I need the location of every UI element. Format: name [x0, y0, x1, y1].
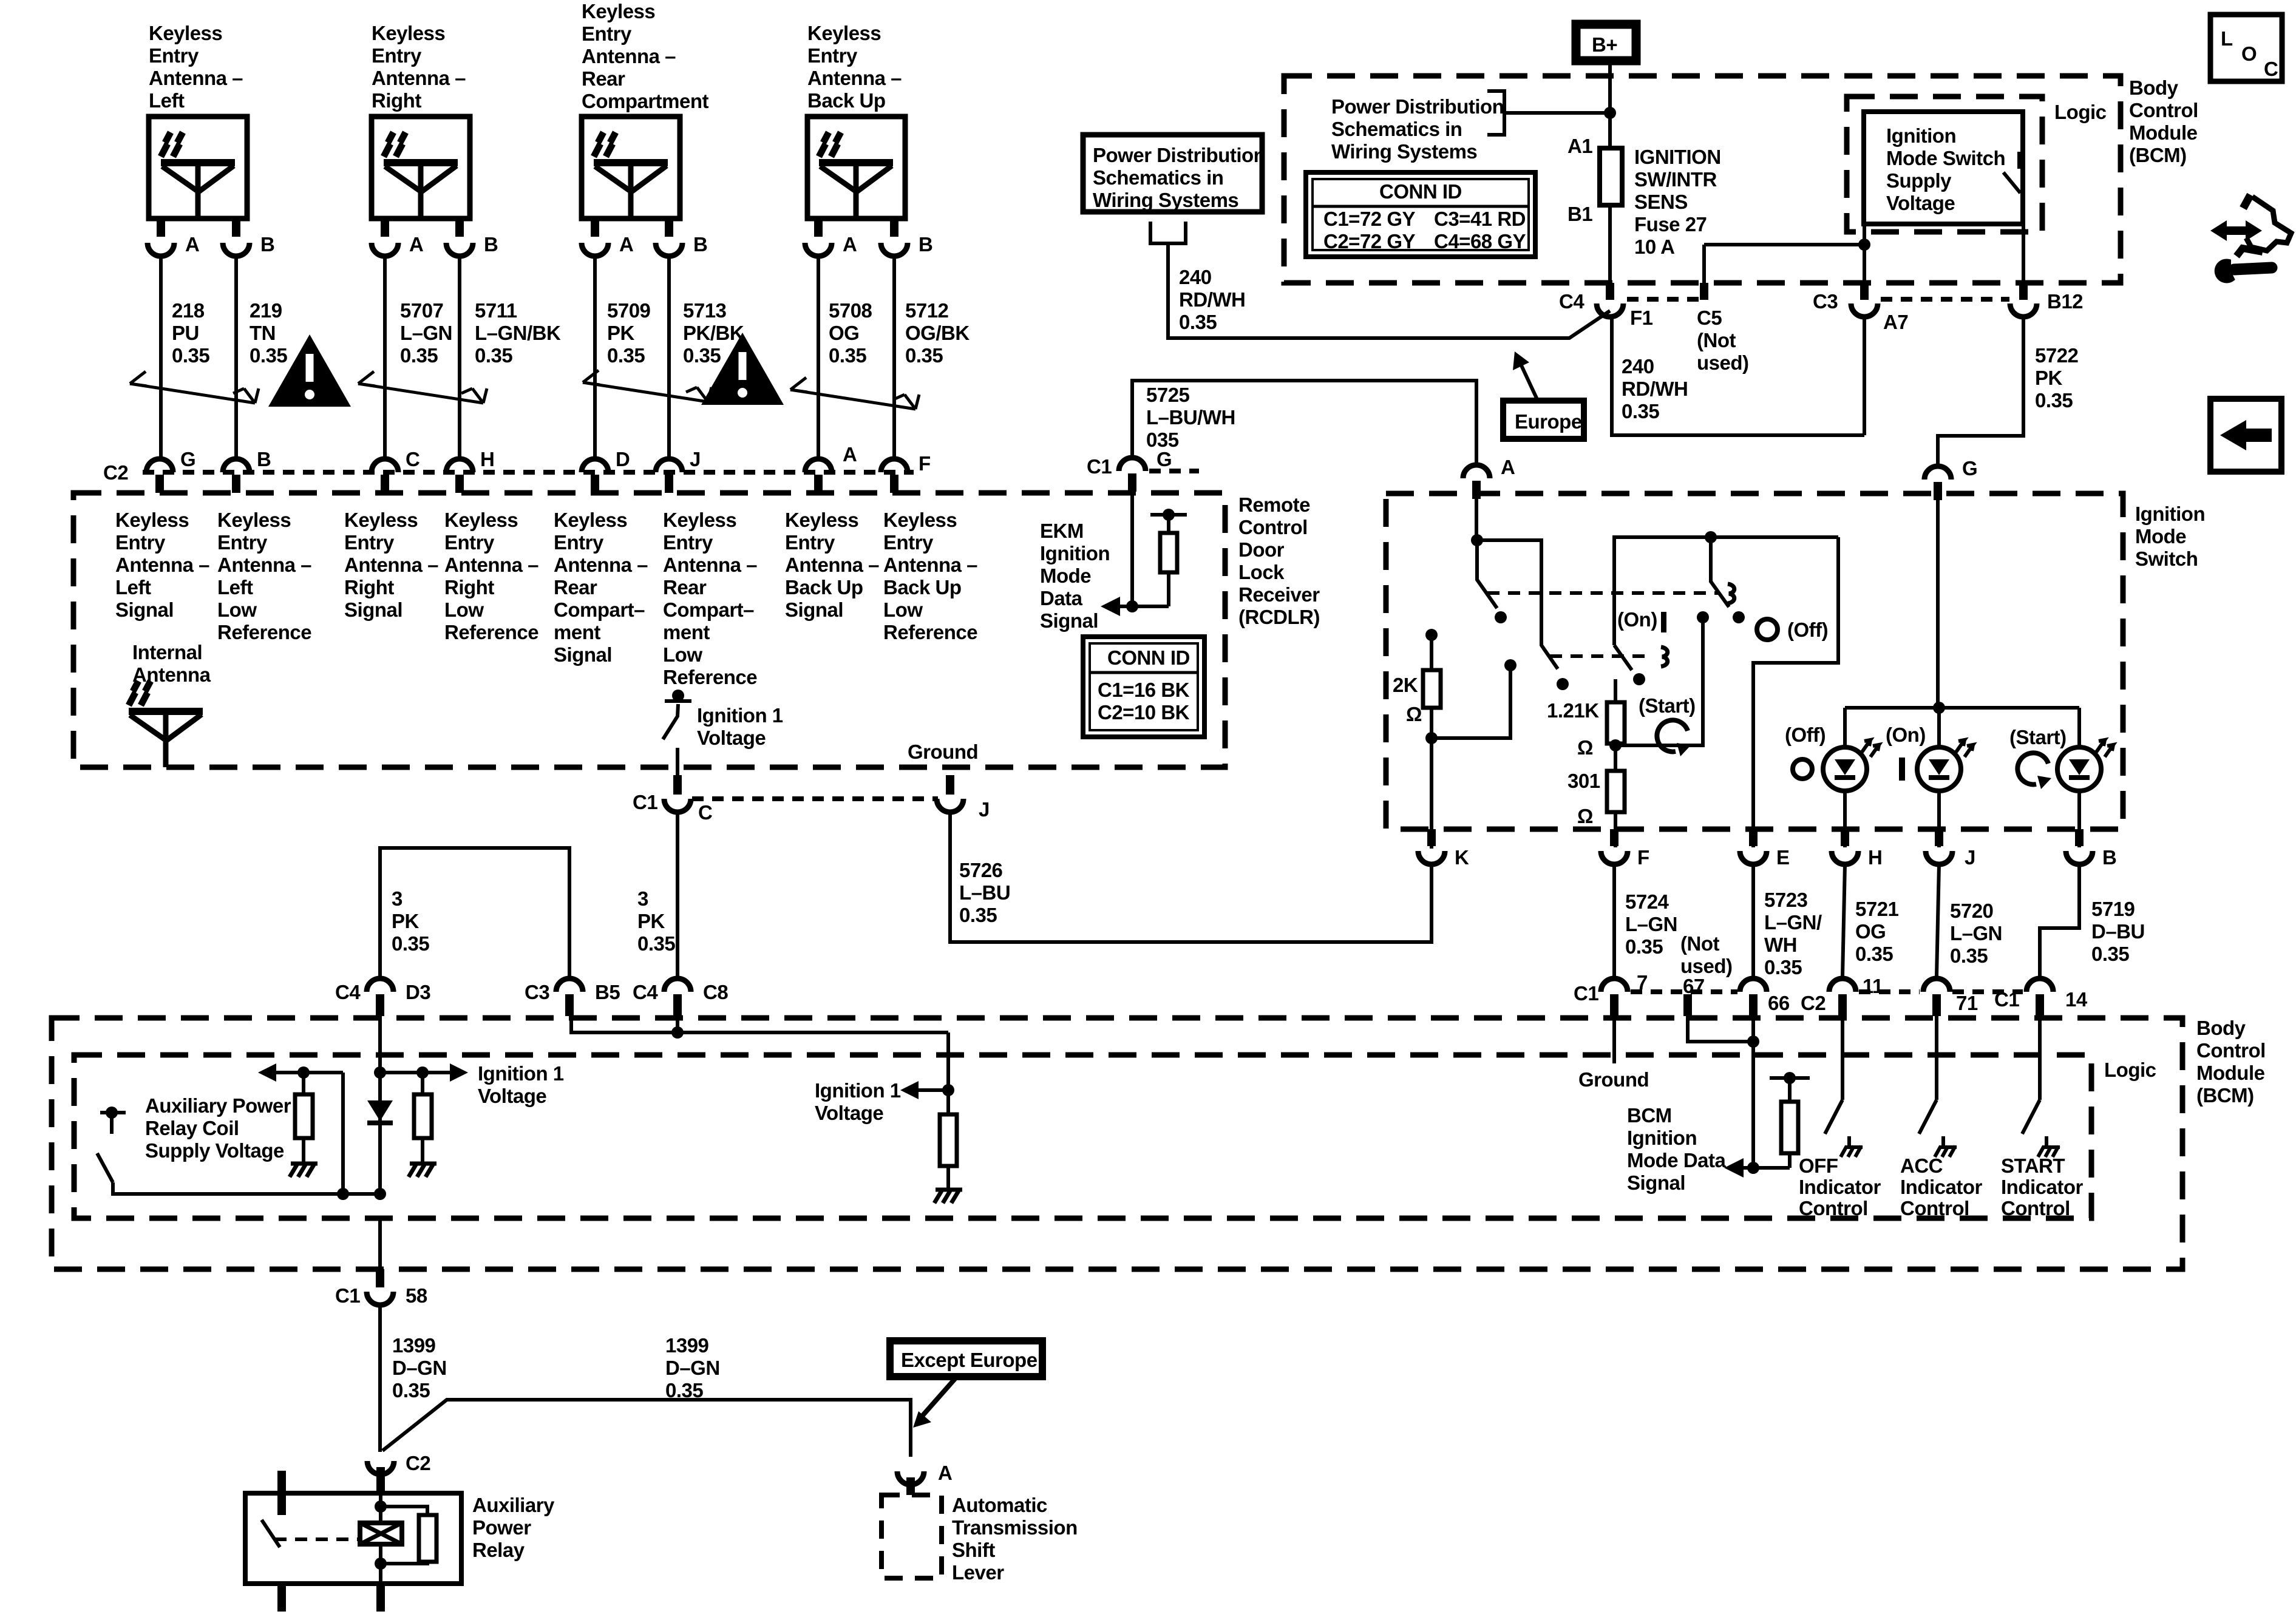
resistor 1.21K [1614, 679, 1617, 702]
wire ground C1-7 [1612, 1016, 1616, 1063]
svg-text:Antenna –: Antenna – [663, 554, 757, 576]
junction branch [337, 1188, 349, 1200]
svg-text:Keyless: Keyless [149, 22, 222, 44]
svg-text:C1: C1 [1994, 988, 2019, 1011]
start rotation arrow [1657, 720, 1688, 751]
svg-text:L: L [2221, 27, 2233, 50]
ground right resistor [409, 1164, 436, 1177]
wire E to 66 [1751, 864, 1755, 976]
svg-text:F1: F1 [1630, 307, 1653, 329]
svg-text:Schematics in: Schematics in [1093, 166, 1223, 189]
svg-text:A7: A7 [1883, 311, 1908, 333]
wire 3 PK D3 to B5 [380, 848, 569, 976]
connector pin J ground [946, 775, 954, 795]
relay linkage dashed [274, 1537, 359, 1541]
antenna box: Keyless Entry Antenna - Left [149, 117, 247, 219]
svg-text:0.35: 0.35 [250, 344, 287, 367]
twisted pair mark antennas backup [790, 378, 919, 409]
wire 5711 L-GN/BK [458, 256, 461, 456]
svg-text:C4: C4 [335, 981, 361, 1003]
relay coil wire [379, 1493, 382, 1584]
wire 5709 PK [593, 256, 597, 456]
svg-text:5726: 5726 [959, 859, 1003, 881]
LED START indicator [2057, 740, 2113, 791]
pin stub B [455, 219, 464, 237]
wire LED1 [1843, 708, 1847, 847]
linkage dashed 1 [1487, 591, 1719, 595]
pin stub A [381, 219, 389, 237]
svg-text:Auxiliary: Auxiliary [472, 1494, 555, 1516]
connector pin C3 B5 [556, 978, 583, 992]
svg-text:Keyless: Keyless [883, 509, 957, 531]
svg-text:Left: Left [149, 89, 185, 112]
svg-text:(Not: (Not [1680, 932, 1719, 955]
svg-text:(Not: (Not [1697, 329, 1736, 351]
svg-text:Ω: Ω [1577, 805, 1593, 827]
svg-text:Power: Power [472, 1516, 531, 1539]
svg-text:Mode: Mode [1040, 564, 1091, 587]
OFF indicator ground [1841, 1136, 1863, 1157]
svg-text:L–BU/WH: L–BU/WH [1146, 406, 1235, 429]
wire 66 BCM data [1751, 1016, 1755, 1168]
START indicator ground [2038, 1136, 2060, 1157]
svg-text:START: START [2001, 1154, 2065, 1177]
svg-text:Auxiliary Power: Auxiliary Power [145, 1094, 291, 1117]
warning triangle 2 [701, 333, 784, 405]
wire 240 RD/WH to F1 [1168, 243, 1610, 338]
svg-text:Left: Left [217, 576, 253, 598]
svg-text:C4=68 GY: C4=68 GY [1434, 230, 1526, 253]
svg-text:Control: Control [1900, 1197, 1969, 1219]
svg-text:C2: C2 [406, 1452, 430, 1474]
connector pin J [1935, 829, 1943, 846]
wire LED2 [1937, 791, 1941, 847]
svg-text:Compart–: Compart– [554, 598, 645, 621]
wire A into switch [1475, 492, 1478, 540]
wire H to 11 [1843, 864, 1845, 976]
fine dash row C2 group [1859, 989, 1920, 994]
wire J to 71 [1937, 864, 1939, 976]
svg-text:0.35: 0.35 [2091, 943, 2129, 965]
svg-text:0.35: 0.35 [683, 344, 721, 367]
svg-text:A: A [619, 233, 633, 256]
svg-text:Ignition: Ignition [1627, 1127, 1697, 1149]
Automatic Transmission Shift Lever dashed box [881, 1495, 942, 1578]
svg-text:C4: C4 [1559, 290, 1584, 313]
svg-text:OG: OG [829, 322, 859, 344]
svg-text:L–GN: L–GN [1625, 913, 1677, 935]
connector pin 66 [1740, 978, 1767, 992]
svg-text:Schematics in: Schematics in [1331, 118, 1462, 140]
svg-text:Mode Switch: Mode Switch [1886, 147, 2005, 169]
linkage dashed 2 [1550, 654, 1652, 658]
svg-text:EKM: EKM [1040, 520, 1084, 542]
svg-text:Keyless: Keyless [372, 22, 445, 44]
connector pin B [223, 243, 250, 256]
svg-text:Signal: Signal [344, 598, 402, 621]
svg-text:Entry: Entry [785, 531, 835, 554]
svg-text:O: O [2241, 42, 2257, 65]
svg-text:PU: PU [172, 322, 199, 344]
svg-text:L–GN: L–GN [1950, 922, 2002, 944]
BCM inner logic dashed box [74, 1055, 2091, 1218]
connector pin B [881, 243, 908, 256]
relay coil box [360, 1523, 402, 1544]
resistor left pull [302, 1073, 305, 1164]
svg-text:Lever: Lever [952, 1561, 1004, 1584]
svg-text:Entry: Entry [217, 531, 268, 554]
svg-text:Voltage: Voltage [815, 1102, 883, 1124]
svg-text:Lock: Lock [1238, 561, 1285, 583]
wire 5712 OG/BK [892, 256, 896, 456]
two-way wrench icon [2210, 195, 2291, 281]
svg-text:5720: 5720 [1950, 900, 1993, 922]
svg-text:D–GN: D–GN [392, 1357, 447, 1379]
connector pin K [1427, 829, 1436, 846]
wire C internal [676, 748, 679, 777]
svg-text:Keyless: Keyless [217, 509, 291, 531]
svg-text:7: 7 [1637, 971, 1648, 994]
svg-text:A: A [938, 1462, 952, 1484]
CONN ID table BCM top [1306, 172, 1535, 257]
svg-text:0.35: 0.35 [959, 904, 997, 926]
svg-text:Control: Control [2129, 99, 2198, 121]
antenna symbol [594, 132, 668, 219]
contact dot 4b [1733, 611, 1745, 623]
svg-text:PK: PK [2035, 367, 2063, 389]
resistor BCM data pull-up [1788, 1078, 1792, 1168]
svg-text:K: K [1455, 846, 1469, 869]
svg-text:E: E [1776, 846, 1790, 869]
svg-text:PK/BK: PK/BK [683, 322, 744, 344]
junction A7 [1858, 239, 1870, 251]
svg-text:219: 219 [250, 299, 282, 322]
svg-text:RD/WH: RD/WH [1622, 378, 1688, 400]
svg-text:Entry: Entry [554, 531, 604, 554]
spring 1 [1728, 584, 1734, 603]
svg-text:0.35: 0.35 [1622, 400, 1659, 422]
svg-text:(Start): (Start) [2009, 726, 2067, 748]
connector pin B [656, 243, 682, 256]
connector row fine dash F1-C5 [1627, 297, 1700, 302]
Europe arrow [1521, 364, 1538, 401]
svg-text:B5: B5 [595, 981, 620, 1003]
svg-text:0.35: 0.35 [665, 1379, 703, 1402]
connector pin 67 stub [1683, 994, 1692, 1016]
svg-text:Back Up: Back Up [807, 89, 886, 112]
svg-text:Reference: Reference [217, 621, 311, 643]
svg-text:Relay Coil: Relay Coil [145, 1117, 239, 1139]
svg-text:G: G [180, 448, 195, 470]
svg-text:3: 3 [392, 887, 402, 910]
LED rail [1845, 706, 2079, 710]
svg-text:5707: 5707 [400, 299, 443, 322]
svg-text:5723: 5723 [1764, 889, 1808, 911]
svg-text:Signal: Signal [554, 643, 612, 666]
svg-text:C: C [2264, 58, 2278, 80]
svg-text:5713: 5713 [683, 299, 727, 322]
fuse IGNITION SW/INTR SENS Fuse 27 [1600, 148, 1622, 205]
svg-text:0.35: 0.35 [1625, 935, 1663, 958]
wire aux switch to main [113, 1182, 380, 1194]
wire ground J to K [950, 812, 1432, 942]
svg-text:Voltage: Voltage [1886, 192, 1955, 214]
LOC box icon [2210, 15, 2282, 81]
connector pin H [1841, 829, 1849, 846]
svg-text:A: A [185, 233, 199, 256]
svg-text:L–GN/: L–GN/ [1764, 911, 1822, 934]
antenna symbol [819, 132, 893, 219]
connector pin G (mode switch top) [1924, 466, 1951, 480]
antenna box: Keyless Entry Antenna - Right [372, 117, 470, 219]
svg-text:ment: ment [663, 621, 710, 643]
wire B to 14 [2040, 864, 2079, 976]
svg-text:Wiring Systems: Wiring Systems [1093, 189, 1238, 211]
junction 66 end [1747, 1162, 1759, 1174]
svg-text:Supply Voltage: Supply Voltage [145, 1139, 284, 1162]
svg-text:BCM: BCM [1627, 1104, 1672, 1127]
BCM pull-up rail bar [1770, 1076, 1810, 1080]
svg-text:Control: Control [1238, 516, 1308, 538]
switch arm 1 [1477, 540, 1497, 608]
connector pin E [1749, 829, 1758, 846]
resistor RCDLR pull-up [1135, 515, 1169, 606]
svg-text:0.35: 0.35 [829, 344, 866, 367]
diode on main [367, 1100, 393, 1121]
pin stub A [157, 219, 165, 237]
svg-text:C5: C5 [1697, 307, 1722, 329]
connector pin C (C1) [673, 775, 682, 795]
svg-text:Back Up: Back Up [883, 576, 962, 598]
svg-text:D: D [616, 448, 630, 470]
svg-text:(Start): (Start) [1639, 694, 1696, 717]
svg-text:Antenna –: Antenna – [344, 554, 438, 576]
junction rail right resistor [416, 1066, 429, 1079]
svg-text:58: 58 [406, 1284, 427, 1307]
svg-text:Logic: Logic [2104, 1059, 2156, 1081]
svg-text:Low: Low [444, 598, 484, 621]
junction 2K bottom [1425, 732, 1438, 744]
svg-text:240: 240 [1622, 355, 1654, 378]
svg-text:(RCDLR): (RCDLR) [1238, 606, 1320, 628]
svg-text:Signal: Signal [785, 598, 843, 621]
internal antenna symbol [129, 681, 203, 767]
svg-text:Indicator: Indicator [2001, 1176, 2084, 1198]
junction 67/66 [1747, 1036, 1759, 1048]
junction 1.21K/301 [1609, 739, 1622, 751]
svg-text:5709: 5709 [607, 299, 651, 322]
arm3 contact to 1.21K [1633, 673, 1645, 685]
svg-text:Right: Right [444, 576, 494, 598]
svg-text:F: F [1637, 846, 1649, 869]
svg-text:B: B [257, 448, 271, 470]
svg-text:Signal: Signal [1040, 609, 1098, 632]
wire 5707 L-GN [383, 256, 387, 456]
twisted pair mark antennas rear [583, 370, 712, 402]
svg-text:67: 67 [1683, 975, 1705, 997]
resistor 301 [1614, 744, 1617, 847]
wire 5708 OG [817, 256, 820, 456]
svg-text:Compart–: Compart– [663, 598, 754, 621]
svg-text:0.35: 0.35 [172, 344, 209, 367]
wire start contact down [1615, 617, 1703, 745]
connector pin C4 F1 [1606, 283, 1614, 300]
svg-text:H: H [1868, 846, 1882, 869]
Except Europe arrow [922, 1375, 958, 1417]
aux relay supply contact [100, 1113, 126, 1134]
off-page bracket 2 [1150, 222, 1186, 243]
on bar mark [1661, 612, 1666, 632]
svg-text:(On): (On) [1617, 608, 1657, 631]
svg-text:(Off): (Off) [1785, 724, 1826, 746]
svg-text:Entry: Entry [883, 531, 934, 554]
antenna box: Keyless Entry Antenna - Rear Compartment [582, 117, 680, 219]
svg-text:Signal: Signal [115, 598, 174, 621]
connector row RCDLR bottom fine dash [692, 796, 938, 801]
relay resistor parallel [381, 1507, 427, 1564]
svg-text:A: A [843, 233, 857, 256]
svg-text:L–GN/BK: L–GN/BK [475, 322, 561, 344]
svg-text:Relay: Relay [472, 1539, 525, 1561]
wire G internal [1130, 480, 1134, 606]
svg-text:Low: Low [883, 598, 923, 621]
svg-text:D–BU: D–BU [2091, 920, 2145, 943]
svg-text:C2=72 GY: C2=72 GY [1323, 230, 1415, 253]
connector pin B [223, 459, 250, 472]
svg-text:0.35: 0.35 [475, 344, 512, 367]
svg-text:0.35: 0.35 [1179, 311, 1217, 333]
svg-text:Keyless: Keyless [444, 509, 518, 531]
wire ignition1 right instance [571, 1016, 948, 1090]
svg-text:Module: Module [2129, 121, 2198, 144]
svg-text:Door: Door [1238, 538, 1285, 561]
resistor right pull [421, 1073, 424, 1164]
svg-text:OFF: OFF [1799, 1154, 1838, 1177]
output rail E net [1614, 537, 1838, 847]
svg-text:Entry: Entry [444, 531, 495, 554]
svg-text:218: 218 [172, 299, 205, 322]
svg-text:Low: Low [663, 643, 702, 666]
svg-text:Switch: Switch [2135, 547, 2198, 570]
svg-text:Right: Right [372, 89, 421, 112]
svg-text:Left: Left [115, 576, 151, 598]
svg-text:Wiring Systems: Wiring Systems [1331, 140, 1477, 163]
connector pin C3 A7 [1860, 283, 1869, 300]
svg-text:Right: Right [344, 576, 394, 598]
svg-text:(BCM): (BCM) [2129, 144, 2187, 166]
svg-text:0.35: 0.35 [1855, 943, 1893, 965]
svg-text:Control: Control [2196, 1039, 2266, 1062]
EKM data signal arrow [1101, 597, 1120, 616]
wire supply box to A7 [1704, 224, 1864, 285]
svg-text:Data: Data [1040, 587, 1083, 609]
svg-text:C3: C3 [525, 981, 549, 1003]
svg-text:L–BU: L–BU [959, 881, 1010, 904]
warning triangle 1 [268, 334, 351, 407]
svg-text:used): used) [1680, 955, 1733, 977]
rail A to arm2 [1477, 540, 1558, 669]
off position circle [1793, 759, 1812, 779]
svg-text:C1: C1 [335, 1284, 360, 1307]
svg-text:Antenna –: Antenna – [217, 554, 311, 576]
fine dash row C1-14 [1952, 989, 2023, 994]
on position bar [1899, 758, 1905, 781]
svg-text:2K: 2K [1393, 674, 1418, 696]
switch arm 3 [1614, 645, 1632, 670]
svg-text:5722: 5722 [2035, 344, 2079, 367]
svg-text:J: J [690, 448, 701, 470]
connector row fine dash A7-B12 [1881, 297, 2009, 302]
connector pin C [372, 459, 398, 472]
pin stub B [232, 219, 240, 237]
svg-text:Supply: Supply [1886, 169, 1952, 192]
svg-text:Antenna –: Antenna – [149, 67, 243, 89]
svg-text:Ignition 1: Ignition 1 [697, 704, 783, 727]
BCM outer dashed box [52, 1018, 2182, 1269]
svg-text:Keyless: Keyless [344, 509, 418, 531]
switch arm 4 [1711, 537, 1729, 607]
svg-text:Entry: Entry [663, 531, 713, 554]
svg-text:C1: C1 [1574, 982, 1598, 1005]
OFF indicator driver wire [1825, 1016, 1843, 1134]
junction rail left resistor [297, 1066, 310, 1079]
svg-text:66: 66 [1768, 992, 1790, 1014]
ignition 1 rail [270, 1071, 454, 1074]
svg-text:Internal: Internal [132, 641, 202, 663]
svg-text:C3: C3 [1813, 290, 1838, 313]
svg-text:Keyless: Keyless [582, 0, 655, 22]
wire F to C1-7 [1612, 864, 1616, 976]
resistor ignition sense [946, 1090, 950, 1190]
svg-text:Signal: Signal [1627, 1171, 1685, 1194]
connector pin G [146, 459, 173, 472]
svg-text:Low: Low [217, 598, 257, 621]
svg-text:5725: 5725 [1146, 384, 1190, 406]
svg-text:F: F [919, 452, 931, 475]
connector pin C4 C8 [664, 978, 691, 992]
svg-text:B: B [2102, 846, 2116, 869]
svg-text:Antenna –: Antenna – [883, 554, 977, 576]
svg-text:B12: B12 [2047, 290, 2083, 313]
junction [1126, 600, 1138, 612]
svg-text:Except Europe: Except Europe [901, 1349, 1038, 1371]
svg-text:SENS: SENS [1634, 191, 1688, 213]
svg-text:11: 11 [1863, 975, 1883, 997]
aux relay switch arm [97, 1153, 113, 1182]
svg-text:Rear: Rear [554, 576, 597, 598]
LED OFF indicator [1823, 740, 1879, 791]
svg-text:Rear: Rear [582, 67, 625, 90]
svg-text:ACC: ACC [1900, 1154, 1943, 1177]
START indicator driver wire [2022, 1016, 2040, 1134]
ground left resistor [290, 1164, 318, 1177]
svg-text:C: C [406, 448, 419, 470]
Except Europe flag box [890, 1341, 1042, 1377]
wire 67 jumper [1688, 1016, 1753, 1042]
svg-text:301: 301 [1567, 770, 1600, 792]
svg-text:D3: D3 [406, 981, 430, 1003]
connector pin A [805, 243, 832, 256]
wire 219 TN [234, 256, 238, 456]
svg-text:Remote: Remote [1238, 493, 1310, 516]
junction C8 wire [671, 1026, 684, 1039]
svg-text:G: G [1962, 457, 1977, 480]
svg-text:Keyless: Keyless [115, 509, 189, 531]
svg-text:Ignition: Ignition [2135, 503, 2205, 525]
relay contact pin top stub [277, 1471, 286, 1515]
ACC indicator driver wire [1919, 1016, 1937, 1134]
svg-text:C4: C4 [633, 981, 658, 1003]
